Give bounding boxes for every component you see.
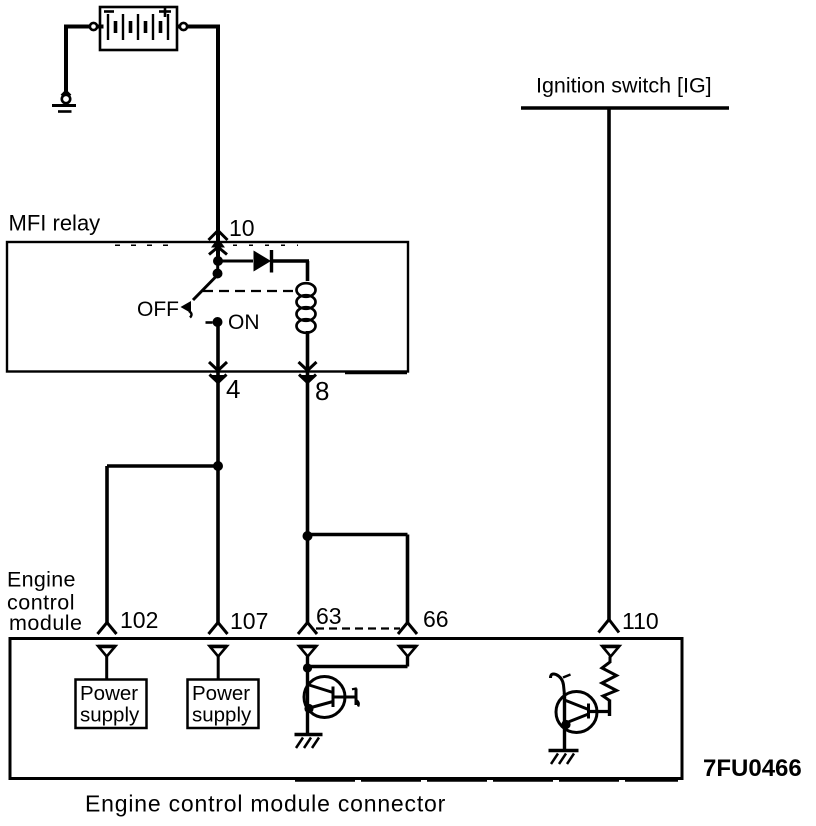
svg-text:4: 4 — [226, 374, 240, 404]
svg-text:8: 8 — [315, 376, 329, 406]
svg-text:OFF: OFF — [137, 298, 179, 321]
svg-text:7FU0466: 7FU0466 — [703, 755, 802, 782]
svg-text:66: 66 — [423, 606, 449, 632]
svg-text:supply: supply — [192, 704, 252, 727]
svg-text:110: 110 — [622, 608, 659, 634]
svg-text:63: 63 — [316, 603, 342, 629]
svg-text:Engine: Engine — [7, 568, 76, 592]
svg-text:102: 102 — [120, 607, 158, 633]
svg-text:Engine control module connecto: Engine control module connector — [85, 791, 446, 817]
svg-text:Power: Power — [192, 682, 250, 705]
svg-text:Power: Power — [80, 682, 138, 705]
svg-text:Ignition switch [IG]: Ignition switch [IG] — [536, 74, 712, 98]
svg-text:ON: ON — [228, 311, 260, 334]
svg-text:module: module — [9, 611, 83, 635]
svg-text:10: 10 — [229, 215, 255, 241]
svg-text:MFI relay: MFI relay — [9, 211, 101, 236]
svg-text:supply: supply — [80, 704, 140, 727]
svg-text:107: 107 — [230, 608, 268, 634]
